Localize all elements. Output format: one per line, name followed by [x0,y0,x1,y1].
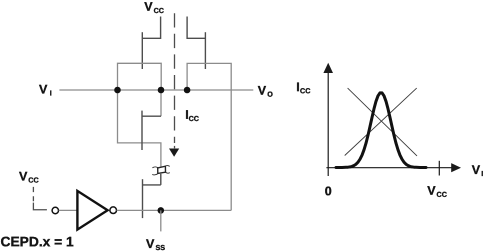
current arrow I_CC (arrowhead) [169,149,179,157]
graph thin line B (falling) [348,88,417,156]
graph label V_CC [427,184,447,199]
svg-text:V: V [146,237,155,251]
graph y-axis arrowhead [323,63,333,73]
wire (dashed lead from VCC label) [32,187,34,201]
net label VSS [146,237,165,252]
junction dot (input rail center) [158,87,165,94]
graph label V_I [472,163,483,178]
junction dot (VSS rail) [158,207,165,214]
svg-text:V: V [258,84,267,98]
nonlinear element (tilted box with whiskers on center column) [152,166,170,175]
inverter U1 input bubble [52,207,58,213]
svg-text:V: V [144,0,153,14]
graph x-axis arrowhead [451,163,461,172]
inverter U1 output bubble [110,207,117,214]
current arrow I_CC (dashed line) [174,13,176,143]
svg-text:CC: CC [300,86,310,95]
wire (V_I / V_O horizontal rail) [59,89,253,91]
inverter U1 triangle [77,191,107,230]
wire (NMOS source lead from rail) [160,90,162,116]
transistor Q1 (top-left PMOS: lead, bracket, channel bar) [142,17,160,70]
wire (solid elbow into inverter input bubble) [33,203,47,210]
graph bell curve I_CC [336,93,426,168]
wire (right gate staple to output column) [187,63,231,210]
svg-text:CEPD.x = 1: CEPD.x = 1 [0,234,74,249]
net label VCC (top supply) [144,0,164,15]
net label V_O (output) [258,84,274,99]
wire (VSS rail from inverter output to output column) [117,209,232,211]
svg-text:CC: CC [28,176,38,185]
wire (bubble to inverter) [59,209,78,211]
svg-text:CC: CC [189,114,199,123]
label I_CC (current) [185,108,199,123]
current arrow I_CC (stub above arrowhead) [174,146,176,148]
graph thin line A (rising) [345,88,417,155]
svg-text:V: V [19,170,28,184]
transistor Q3 (inverter NMOS: bracket, channel bar) [142,111,161,150]
svg-text:SS: SS [155,243,165,252]
net label VCC (bottom-left supply) [19,170,39,185]
wire (element to power-down transistor lead) [160,174,162,185]
graph y-axis I_CC [327,73,329,177]
wire (drain path: left column down and across to center column) [118,90,161,167]
graph label I_CC [296,80,310,95]
graph tick at V_CC [438,161,440,176]
junction dot (input rail right) [184,87,191,94]
transistor Q4 (power-down NMOS: bracket, channel bar) [143,179,161,218]
svg-text:V: V [427,184,436,198]
svg-text:V: V [472,163,481,177]
wire (VSS stub) [160,210,162,231]
svg-text:O: O [267,90,273,99]
wire (left gate staple from input rail) [118,63,162,90]
svg-text:CC: CC [436,190,446,199]
transistor Q2 (top-right PMOS: lead, bracket, channel bar) [187,17,205,70]
net label V_I (input) [39,83,52,98]
junction dot (input rail left) [114,87,121,94]
graph x-axis V_I [326,167,451,169]
svg-text:V: V [39,83,48,97]
svg-text:CC: CC [154,6,164,15]
svg-text:I: I [50,89,52,98]
svg-text:0: 0 [325,184,332,198]
